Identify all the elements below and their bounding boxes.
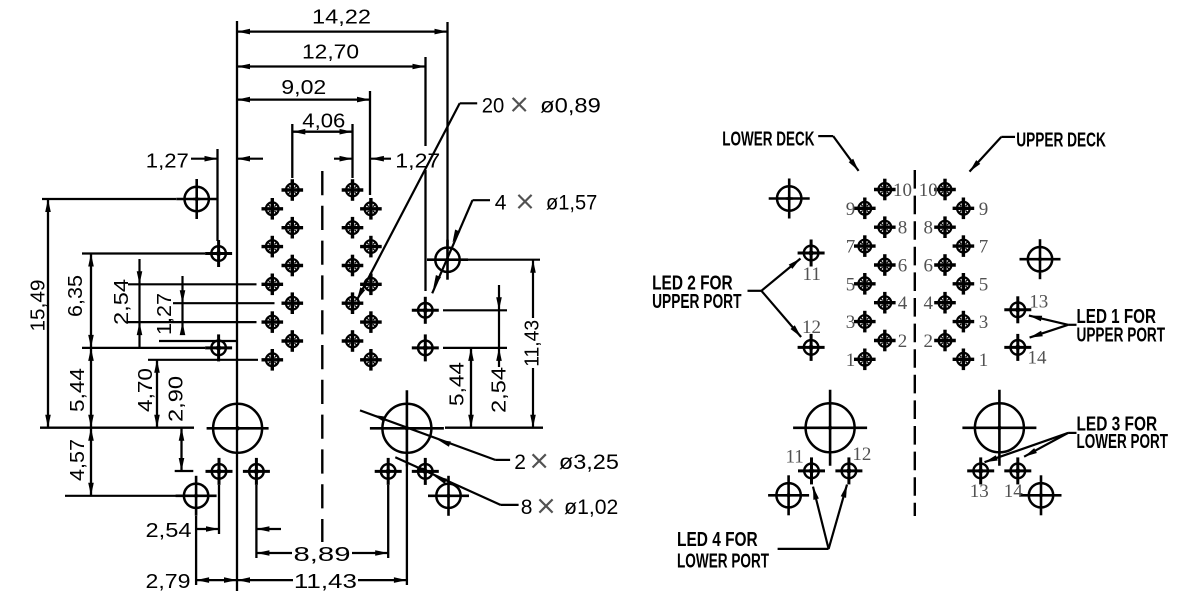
svg-text:ø3,25: ø3,25 (559, 451, 619, 474)
big hole right (right dwg) (962, 390, 1036, 466)
pad upper-deck outer pin 5 (953, 273, 975, 295)
svg-text:8: 8 (521, 496, 533, 519)
wire: 4.06 extension x=352.5 (351, 124, 353, 178)
pad left-outer row 1 (262, 236, 284, 258)
pad lower-deck inner pin 10 (874, 179, 896, 201)
pad lower-deck outer pin 1 (854, 349, 876, 371)
leader 8x d1.02 (501, 504, 519, 506)
svg-text:2: 2 (924, 331, 934, 352)
wire: ext line y=199 from hole A1 (42, 198, 176, 200)
svg-text:1: 1 (846, 350, 856, 371)
wire: ext line y=347.9 from LED12 (82, 347, 205, 349)
mount hole 1.57 bottom-left (176, 476, 217, 516)
svg-text:3: 3 (846, 312, 856, 333)
LED hole 12 (left dwg) (205, 334, 232, 361)
svg-text:3: 3 (979, 312, 989, 333)
dimension 2.54 right (arrows outside) (498, 285, 500, 367)
svg-text:5,44: 5,44 (447, 362, 469, 406)
mount hole bottom-right (right dwg) (1021, 475, 1062, 515)
wire: ext line y=427.7 right of big hole B2 (445, 427, 543, 429)
dimension 1.27 rows (arrows outside) (181, 276, 183, 333)
LED hole 13 (left dwg) (412, 297, 439, 324)
svg-text:1,27: 1,27 (154, 293, 176, 335)
pad upper-deck inner pin 6 (934, 254, 956, 276)
pad upper-deck inner pin 10 (934, 179, 956, 201)
svg-text:LOWER PORT: LOWER PORT (1077, 431, 1169, 453)
svg-text:8,89: 8,89 (294, 544, 351, 566)
mount hole 1.57 top-left (176, 179, 217, 219)
svg-text:20: 20 (482, 95, 505, 118)
leader LOWER DECK (818, 135, 833, 137)
svg-text:2,54: 2,54 (111, 279, 133, 325)
dimension 12.70 (237, 65, 426, 67)
pad left-outer row 4 (262, 349, 284, 371)
mount hole top-left (right dwg) (769, 179, 810, 219)
wire: ext line y=284.3 pad row (128, 283, 257, 285)
big hole left (right dwg) (793, 390, 867, 466)
wire: ext line y=341 pad row (159, 340, 237, 342)
wire: ext line y=303.2 pad row (173, 302, 275, 304)
svg-text:9: 9 (846, 199, 856, 220)
pad left-outer row 0 (262, 198, 284, 220)
LED hole 13 lower (right dwg) (967, 457, 994, 484)
wire: main left extension line x=237 (236, 21, 238, 591)
LED hole 14 (left dwg) (412, 334, 439, 361)
wire: ext line y=347.9 from LED14 (443, 347, 507, 349)
svg-text:11: 11 (803, 264, 821, 285)
big hole 3.25 left (207, 404, 269, 453)
pad right-inner row 4 (342, 330, 364, 352)
leader 2x d3.25 (495, 459, 510, 461)
dimension 9.02 (237, 98, 370, 100)
svg-text:ø1,57: ø1,57 (546, 192, 597, 215)
pad lower-deck inner pin 4 (874, 292, 896, 314)
leader LED 4 arrows (778, 548, 829, 550)
pad upper-deck inner pin 4 (934, 292, 956, 314)
dimension 11.43 bottom (237, 579, 293, 581)
svg-text:9: 9 (979, 199, 989, 220)
wire: ext line y=359.8 pad row 10 (148, 359, 258, 361)
pad right-inner row 3 (342, 292, 364, 314)
LED hole 14 lower (left dwg) (412, 458, 439, 485)
pad upper-deck outer pin 7 (953, 235, 975, 257)
dimension 14.22 (237, 30, 448, 32)
svg-text:2,54: 2,54 (146, 520, 192, 542)
pad right-outer row 4 (360, 349, 382, 371)
LED hole 14 lower (right dwg) (1004, 457, 1031, 484)
centerline (right footprint) (914, 170, 916, 516)
svg-text:2: 2 (898, 331, 908, 352)
dimension 4.70 (156, 360, 158, 428)
pad left-inner row 2 (282, 255, 304, 277)
svg-text:LOWER DECK: LOWER DECK (722, 129, 815, 151)
pad lower-deck outer pin 3 (854, 311, 876, 333)
svg-text:7: 7 (846, 237, 856, 258)
svg-text:4,70: 4,70 (135, 368, 157, 412)
LED hole 11 upper (right dwg) (798, 240, 825, 267)
pad upper-deck outer pin 9 (953, 198, 975, 220)
svg-text:ø0,89: ø0,89 (540, 95, 601, 118)
svg-text:2,79: 2,79 (146, 571, 191, 593)
wire: 12.70 extension x=425.5 (upper) (424, 57, 426, 146)
mount hole bottom-left (right dwg) (768, 475, 809, 515)
svg-text:13: 13 (1029, 292, 1048, 313)
dimension 2.54 bottom (arrows outside) (195, 528, 219, 530)
pad lower-deck inner pin 2 (874, 330, 896, 352)
svg-text:10: 10 (919, 180, 938, 201)
pad lower-deck inner pin 8 (874, 216, 896, 238)
pad upper-deck inner pin 2 (934, 330, 956, 352)
wire: ext line y=259.7 from hole A2 (468, 259, 540, 261)
dimension 5.44 left (90, 348, 92, 428)
LED hole 13 upper (right dwg) (1004, 296, 1031, 323)
svg-text:2,90: 2,90 (166, 376, 188, 422)
svg-text:12: 12 (852, 444, 871, 465)
svg-text:12: 12 (802, 317, 821, 338)
mount hole 1.57 bottom-right (428, 476, 469, 516)
LED hole 12 lower (left dwg) (243, 458, 270, 485)
dimension 5.44 right (470, 348, 472, 428)
svg-text:LOWER PORT: LOWER PORT (677, 550, 769, 572)
mount hole 1.57 top-right (427, 240, 468, 280)
svg-text:UPPER DECK: UPPER DECK (1016, 130, 1106, 152)
svg-text:11,43: 11,43 (294, 571, 357, 593)
pad left-outer row 2 (262, 274, 284, 296)
pad left-inner row 4 (282, 330, 304, 352)
svg-text:5: 5 (846, 274, 856, 295)
pad right-outer row 3 (360, 311, 382, 333)
dimension 1.27 right (arrows outside) (334, 158, 353, 160)
leader 4x d1.57 (473, 199, 491, 201)
svg-text:9,02: 9,02 (281, 77, 326, 99)
svg-text:4: 4 (924, 293, 934, 314)
wire: ext line y=253.5 from LED11 (82, 252, 205, 254)
svg-text:1,27: 1,27 (146, 150, 189, 172)
wire: ext line y=310.3 from LED13 (443, 309, 507, 311)
svg-text:6: 6 (898, 256, 908, 277)
LED hole 12 lower (right dwg) (835, 457, 862, 484)
svg-text:UPPER PORT: UPPER PORT (1077, 324, 1166, 346)
LED hole 12 upper (right dwg) (798, 334, 825, 361)
svg-text:8: 8 (924, 218, 934, 239)
wire: 14.22 right extension x=447.5 (446, 22, 448, 246)
svg-text:8: 8 (898, 218, 908, 239)
svg-text:10: 10 (893, 180, 912, 201)
pad left-outer row 3 (262, 311, 284, 333)
pad lower-deck outer pin 5 (854, 273, 876, 295)
leader UPPER DECK (1001, 136, 1015, 138)
pad left-inner row 1 (282, 217, 304, 239)
svg-text:14: 14 (1028, 347, 1048, 368)
wire: ext line y=495.8 from hole A3 (65, 495, 176, 497)
pad left-inner row 3 (282, 292, 304, 314)
pad upper-deck outer pin 3 (953, 311, 975, 333)
svg-text:6,35: 6,35 (65, 275, 87, 317)
leader LED 1 arrows (1068, 324, 1076, 326)
pad upper-deck inner pin 8 (934, 216, 956, 238)
wire: ext tick y=471 for 2.90 (175, 470, 194, 472)
dimension 15.49 (47, 199, 49, 428)
LED hole 13 lower (left dwg) (375, 458, 402, 485)
svg-text:14: 14 (1004, 481, 1024, 502)
pad right-inner row 1 (342, 217, 364, 239)
wire: LED11 extension x=217.5 (216, 149, 218, 241)
leader 20x d0.89 (460, 102, 478, 104)
svg-text:4,57: 4,57 (67, 439, 89, 481)
svg-text:LED 4 FOR: LED 4 FOR (677, 529, 758, 551)
LED hole 11 lower (left dwg) (206, 458, 233, 485)
wire: bottom extension x=196.1 (195, 516, 197, 585)
svg-text:11: 11 (785, 447, 803, 468)
wire: bottom extension x=406.9 from big hole B2 (406, 466, 408, 585)
leader LED 3 arrows (1068, 432, 1076, 434)
mount hole top-right (right dwg) (1020, 239, 1061, 279)
dimension 11.43 right (532, 260, 534, 318)
pad left-inner row 0 (282, 179, 304, 201)
svg-text:2,54: 2,54 (488, 367, 510, 413)
pad upper-deck outer pin 1 (953, 349, 975, 371)
wire: bottom extension x=388.2 from LED13b (387, 485, 389, 558)
pad right-outer row 2 (360, 274, 382, 296)
dimension 8.89 (256, 552, 292, 554)
LED hole 11 (left dwg) (205, 240, 232, 267)
dimension 2.90 (180, 428, 182, 471)
svg-text:5,44: 5,44 (67, 368, 89, 412)
pad right-outer row 1 (360, 236, 382, 258)
svg-text:7: 7 (979, 237, 989, 258)
wire: 4.06 extension x=292.3 (291, 124, 293, 178)
dimension 4.06 (292, 131, 352, 133)
svg-text:6: 6 (924, 256, 934, 277)
pad lower-deck inner pin 6 (874, 254, 896, 276)
dimension 4.57 (90, 428, 92, 496)
svg-text:4: 4 (495, 192, 507, 215)
svg-text:1: 1 (979, 350, 989, 371)
wire: ext line y=322.1 pad row (128, 321, 257, 323)
wire: bottom extension x=219 from LED11b (218, 485, 220, 534)
svg-text:2: 2 (514, 451, 526, 474)
wire: 9.02 extension x=370 (369, 91, 371, 195)
svg-text:11,43: 11,43 (522, 320, 544, 367)
LED hole 11 lower (right dwg) (798, 457, 825, 484)
dimension 1.27 left (arrows outside) (191, 158, 218, 160)
LED hole 14 upper (right dwg) (1004, 334, 1031, 361)
pad lower-deck outer pin 7 (854, 235, 876, 257)
svg-text:4,06: 4,06 (302, 110, 345, 132)
centerline (left footprint) (321, 171, 323, 542)
svg-text:4: 4 (898, 293, 908, 314)
big hole 3.25 right (370, 390, 444, 466)
dimension 6.35 (90, 254, 92, 348)
dimension 2.54 left rows (arrows outside) (138, 259, 140, 347)
svg-text:13: 13 (970, 481, 989, 502)
pad right-inner row 0 (342, 179, 364, 201)
wire: ext line y=427.7 left of big hole (40, 427, 194, 429)
pad lower-deck outer pin 9 (854, 198, 876, 220)
leader LED 2 arrows (748, 290, 762, 292)
pad right-inner row 2 (342, 255, 364, 277)
svg-text:ø1,02: ø1,02 (564, 496, 618, 519)
svg-text:5: 5 (979, 274, 989, 295)
wire: bottom extension x=256.4 from LED12b (255, 485, 257, 558)
svg-text:UPPER PORT: UPPER PORT (652, 291, 741, 313)
pad right-outer row 0 (360, 198, 382, 220)
dimension 2.79 (196, 579, 237, 581)
svg-text:12,70: 12,70 (302, 42, 359, 64)
svg-text:14,22: 14,22 (312, 7, 371, 29)
svg-text:15,49: 15,49 (28, 280, 50, 332)
wire: 12.70 extension x=425.5 (lower) (424, 170, 426, 291)
